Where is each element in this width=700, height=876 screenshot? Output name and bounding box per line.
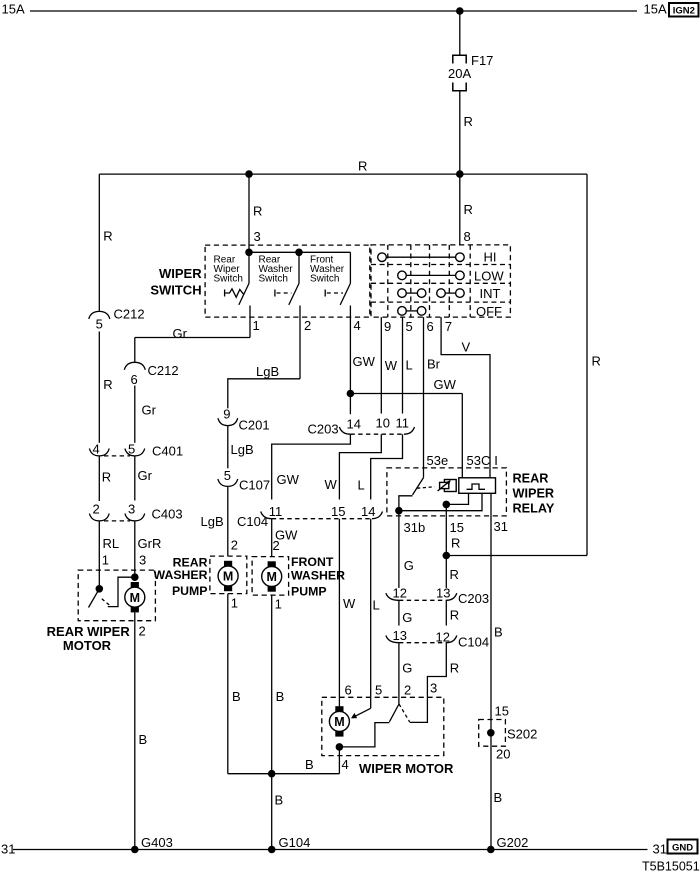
- svg-text:Gr: Gr: [138, 468, 153, 483]
- svg-text:2: 2: [231, 538, 238, 553]
- svg-text:31: 31: [494, 519, 508, 534]
- svg-text:31b: 31b: [404, 520, 426, 535]
- wire R distribution rail: [99, 173, 587, 175]
- connector C203 row1 left cap: [339, 427, 350, 434]
- wire Gr from C401-5 to C403-3: [134, 456, 136, 501]
- svg-text:G202: G202: [497, 835, 529, 850]
- wiper motor M4 housing: [322, 697, 444, 755]
- svg-text:15: 15: [495, 704, 509, 719]
- svg-text:WIPER: WIPER: [159, 266, 202, 281]
- connector C212 pin 6: [124, 362, 145, 370]
- wire INT bridge right: [445, 292, 455, 294]
- svg-text:2: 2: [93, 502, 100, 517]
- svg-text:LOW: LOW: [474, 268, 504, 283]
- svg-text:C203: C203: [308, 422, 339, 437]
- svg-text:4: 4: [342, 757, 349, 772]
- svg-text:GND: GND: [672, 842, 693, 853]
- contact LOW col-e: [456, 271, 465, 280]
- svg-text:B: B: [139, 732, 148, 747]
- svg-text:15: 15: [450, 520, 464, 535]
- park switch blade alternate throw: [399, 704, 410, 722]
- wire B front pump to G104: [271, 595, 273, 849]
- motor M rear wiper: [125, 582, 145, 612]
- contact OFF col-c: [417, 307, 426, 316]
- svg-text:11: 11: [269, 504, 283, 519]
- svg-text:B: B: [494, 790, 503, 805]
- svg-text:WASHER: WASHER: [154, 568, 208, 582]
- node switch feed B: [295, 249, 303, 257]
- wire B bus to G104: [228, 773, 340, 775]
- wire relay common to timer: [399, 493, 482, 510]
- svg-text:8: 8: [464, 229, 471, 244]
- svg-text:W: W: [325, 477, 338, 492]
- svg-text:C401: C401: [152, 444, 183, 459]
- svg-text:B: B: [305, 757, 314, 772]
- svg-text:15: 15: [331, 504, 345, 519]
- svg-text:15A: 15A: [644, 1, 667, 16]
- wire rear washer switch hinge: [298, 252, 300, 283]
- wire R C104-12 to wiper motor pin3: [427, 643, 446, 698]
- wire LOW bridge: [406, 274, 455, 276]
- svg-text:W: W: [343, 596, 356, 611]
- wire LgB from C107-5 to rear pump: [227, 486, 229, 556]
- momentary contact rear washer switch: [274, 290, 276, 297]
- matrix grid divider vertical 2: [410, 245, 412, 317]
- wire W from C203-10 to C104-15: [339, 434, 381, 499]
- svg-text:Br: Br: [427, 357, 441, 372]
- motor M rear washer pump: [218, 561, 238, 591]
- wire R to matrix pin 8: [459, 174, 461, 245]
- svg-text:4: 4: [354, 318, 361, 333]
- wire pin4 front washer output: [349, 306, 351, 415]
- wire Gr horizontal from pin1: [135, 337, 250, 339]
- wire relay 53C internal: [461, 468, 463, 478]
- svg-text:B: B: [276, 689, 285, 704]
- svg-text:V: V: [462, 340, 471, 355]
- wire L from C104-14 to wiper motor pin5: [370, 519, 372, 709]
- svg-text:5: 5: [96, 317, 103, 332]
- matrix grid divider vertical 1: [387, 245, 389, 317]
- svg-text:R: R: [450, 567, 459, 582]
- contact INT col-d: [437, 289, 446, 298]
- node relay pin15 junction: [443, 501, 451, 509]
- svg-text:C403: C403: [152, 507, 183, 522]
- connector C401 pin 5: [125, 449, 145, 456]
- connector C104 row1 right cap: [372, 512, 383, 519]
- svg-text:15A: 15A: [2, 1, 25, 16]
- connector C403 gang link: [104, 520, 130, 522]
- svg-text:PUMP: PUMP: [172, 584, 208, 598]
- svg-text:C212: C212: [148, 363, 179, 378]
- detent spring rear wiper switch: [224, 290, 226, 297]
- svg-text:7: 7: [445, 319, 452, 334]
- wire R to wiper switch pin 3: [248, 174, 250, 252]
- svg-text:20: 20: [496, 747, 510, 762]
- svg-text:1: 1: [102, 553, 109, 568]
- svg-text:9: 9: [223, 407, 230, 422]
- relay blade actuator link: [417, 487, 435, 488]
- switch blade rear wiper: [239, 283, 249, 305]
- svg-text:2: 2: [304, 318, 311, 333]
- connector C403 pin 3: [125, 514, 145, 521]
- node junction rail to wiper switch pin 3: [245, 170, 253, 178]
- park switch blade rear motor: [89, 589, 100, 608]
- svg-text:14: 14: [361, 504, 375, 519]
- svg-text:Gr: Gr: [173, 326, 188, 341]
- front washer pump M3 housing: [252, 557, 289, 596]
- node wiper motor bottom junction: [336, 743, 344, 751]
- svg-text:C212: C212: [114, 307, 145, 322]
- svg-text:RELAY: RELAY: [513, 501, 555, 515]
- wire top power rail 15A: [30, 10, 637, 12]
- matrix grid divider horizontal 3: [371, 301, 510, 303]
- rear wiper motor M1 housing: [78, 570, 155, 621]
- wire LgB from pin2: [228, 379, 300, 409]
- wiper switch speed contact matrix housing: [371, 245, 510, 317]
- svg-text:B: B: [232, 689, 241, 704]
- svg-text:5: 5: [406, 319, 413, 334]
- wire fuse feed: [459, 11, 461, 55]
- svg-text:6: 6: [131, 372, 138, 387]
- svg-text:2: 2: [404, 683, 411, 698]
- wire B wiper motor pin4: [338, 747, 340, 774]
- wire G C104-13 to wiper motor pin2: [398, 643, 400, 704]
- wire GW from C104-11 to front pump: [271, 519, 273, 557]
- svg-text:1: 1: [231, 596, 238, 611]
- svg-text:20A: 20A: [448, 66, 471, 81]
- svg-text:3: 3: [254, 229, 261, 244]
- connector C401 pin 4: [89, 449, 109, 456]
- svg-text:13: 13: [436, 585, 450, 600]
- svg-text:M: M: [266, 570, 276, 584]
- svg-text:GW: GW: [277, 472, 300, 487]
- svg-text:S202: S202: [507, 727, 537, 742]
- svg-text:R: R: [464, 202, 473, 217]
- fuse F17 20A top bracket: [453, 55, 466, 63]
- node relay common junction: [395, 507, 403, 515]
- wire R to right rail horizontal: [446, 555, 587, 557]
- svg-text:3: 3: [128, 502, 135, 517]
- connector C201 pin 9: [218, 418, 238, 425]
- wire feed drop front washer: [349, 252, 351, 283]
- matrix grid divider vertical 4: [448, 245, 450, 317]
- svg-text:11: 11: [396, 416, 410, 431]
- wire pin7 V output to relay: [441, 317, 490, 468]
- contact INT col-e: [456, 289, 465, 298]
- connector C401 gang link: [104, 455, 130, 457]
- svg-text:WIPER: WIPER: [513, 486, 555, 500]
- svg-text:3: 3: [139, 553, 146, 568]
- node splice S202: [487, 729, 495, 737]
- wire LgB from C201-9 to C107-5: [227, 426, 229, 469]
- svg-text:2: 2: [273, 538, 280, 553]
- node R branch to right rail: [443, 552, 451, 560]
- matrix grid divider vertical 3: [429, 245, 431, 317]
- svg-text:9: 9: [384, 319, 391, 334]
- node B bus junction: [268, 770, 276, 778]
- svg-text:G403: G403: [141, 835, 173, 850]
- svg-text:5: 5: [224, 468, 231, 483]
- svg-text:GrR: GrR: [138, 536, 162, 551]
- svg-text:LgB: LgB: [256, 364, 279, 379]
- svg-text:F17: F17: [471, 53, 493, 68]
- wire GrR to motor pin3: [134, 521, 136, 577]
- rear washer pump M2 housing: [210, 556, 247, 594]
- wire relay pin15 internal: [445, 504, 447, 516]
- connector C104 row1 gang link: [272, 518, 372, 520]
- splice S202 housing: [479, 720, 506, 747]
- svg-text:53C: 53C: [467, 453, 491, 468]
- contact INT col-b: [398, 289, 407, 298]
- wire HI bridge: [386, 256, 455, 258]
- svg-text:MOTOR: MOTOR: [63, 638, 112, 653]
- node GW branch junction: [347, 390, 355, 398]
- contact HI col-a: [378, 253, 387, 262]
- svg-text:G: G: [402, 610, 412, 625]
- svg-text:R: R: [464, 114, 473, 129]
- svg-text:C201: C201: [239, 417, 270, 432]
- wire switch feed bus: [249, 251, 350, 253]
- wire pin3 to park contact: [410, 697, 428, 722]
- svg-text:R: R: [450, 660, 459, 675]
- svg-text:C104: C104: [458, 634, 489, 649]
- wire R from C212-5 to C401-4: [98, 332, 100, 443]
- wire pin9 W output: [380, 317, 382, 413]
- svg-text:LgB: LgB: [231, 442, 254, 457]
- wire Gr down to C212-6: [134, 338, 136, 362]
- svg-text:10: 10: [376, 416, 390, 431]
- wire park contact to motor rear: [108, 577, 135, 606]
- wire pin6 Br output to relay 53e: [423, 317, 425, 468]
- connector C104 row2 right cap: [446, 636, 457, 643]
- wire rear wiper switch hinge: [248, 252, 250, 283]
- wire Gr from C212-6 to C401-5: [134, 386, 136, 443]
- matrix grid divider horizontal 2: [371, 282, 510, 284]
- relay timer unit U1: [459, 478, 496, 494]
- svg-text:WIPER MOTOR: WIPER MOTOR: [359, 761, 454, 776]
- svg-text:C203: C203: [458, 591, 489, 606]
- svg-text:M: M: [334, 715, 344, 729]
- wire bottom ground rail 31: [13, 849, 648, 851]
- connector C203 row1 gang link: [350, 433, 404, 435]
- matrix grid divider horizontal 1: [371, 264, 510, 266]
- svg-text:B: B: [494, 625, 503, 640]
- wire L from C203-11 to C104-14: [371, 434, 403, 499]
- wire relay blade common to 31b: [399, 496, 413, 516]
- svg-text:GW: GW: [353, 354, 376, 369]
- svg-text:53e: 53e: [427, 453, 449, 468]
- wiper motor speed tap arrow: [351, 708, 371, 718]
- svg-text:R: R: [253, 204, 262, 219]
- wire GW relay drop: [461, 394, 463, 468]
- svg-text:G: G: [402, 660, 412, 675]
- svg-text:Switch: Switch: [259, 274, 288, 285]
- svg-text:12: 12: [393, 585, 407, 600]
- park switch mech link rear motor: [102, 599, 110, 605]
- svg-text:G104: G104: [279, 835, 311, 850]
- svg-text:L: L: [358, 478, 365, 493]
- svg-text:L: L: [406, 358, 413, 373]
- svg-text:R: R: [451, 536, 460, 551]
- wire B rear pump down: [227, 594, 229, 774]
- wire R C203-13 to C104-12: [445, 600, 447, 625]
- rear wiper relay K1 housing: [387, 468, 507, 516]
- svg-text:WASHER: WASHER: [291, 569, 345, 583]
- motor M wiper: [329, 706, 349, 736]
- svg-text:Switch: Switch: [310, 274, 339, 285]
- relay contact blade: [413, 478, 424, 495]
- svg-text:T5B15051: T5B15051: [642, 860, 700, 874]
- svg-text:M: M: [130, 591, 140, 605]
- wire pin5 L output: [402, 317, 404, 413]
- motor M front washer pump: [262, 561, 282, 591]
- wire pin2 rear washer output: [299, 306, 301, 379]
- svg-text:R: R: [358, 159, 367, 174]
- connector C403 pin 2: [89, 514, 109, 521]
- switch blade front washer: [340, 283, 350, 305]
- momentary contact front washer switch: [324, 290, 326, 297]
- connector C203 row1 right cap: [404, 427, 415, 434]
- svg-text:REAR WIPER: REAR WIPER: [47, 624, 131, 639]
- matrix grid divider vertical 5: [469, 245, 471, 317]
- connector C203 row2 gang link: [399, 599, 446, 601]
- relay trigger arrow box: [438, 480, 457, 492]
- svg-text:13: 13: [393, 628, 407, 643]
- connector C104 row2 gang link: [399, 642, 446, 644]
- svg-text:INT: INT: [480, 286, 501, 301]
- svg-text:RL: RL: [103, 536, 120, 551]
- svg-text:G: G: [404, 558, 414, 573]
- contact INT col-c: [417, 289, 426, 298]
- svg-text:PUMP: PUMP: [291, 585, 327, 599]
- fuse F17 20A bottom bracket: [453, 83, 466, 91]
- node ground G202: [487, 846, 495, 854]
- node ground G403: [131, 846, 139, 854]
- svg-text:1: 1: [275, 597, 282, 612]
- wire B rear motor to ground: [134, 612, 136, 849]
- ground box GND: [668, 840, 698, 854]
- svg-text:I: I: [494, 453, 498, 468]
- wire GW to relay 53C horizontal: [350, 393, 462, 395]
- svg-text:R: R: [102, 470, 111, 485]
- wire R from fuse F17 down: [459, 91, 461, 174]
- wire relay I internal: [489, 468, 491, 478]
- wire park switch return: [339, 723, 389, 747]
- svg-text:31: 31: [653, 842, 667, 857]
- node motor pin3 junction: [131, 573, 139, 581]
- svg-text:R: R: [103, 229, 112, 244]
- svg-text:W: W: [385, 358, 398, 373]
- connector C104 row1 left cap: [261, 512, 272, 519]
- wire G from relay 31b down: [398, 516, 400, 588]
- connector C203 row2 right cap: [446, 593, 457, 600]
- contact OFF col-b: [398, 307, 407, 316]
- svg-text:R: R: [450, 608, 459, 623]
- connector C104 row2 left cap: [386, 636, 399, 643]
- switch blade rear washer: [289, 283, 299, 305]
- svg-text:C107: C107: [239, 477, 270, 492]
- svg-text:6: 6: [427, 319, 434, 334]
- node switch feed A: [245, 249, 253, 257]
- svg-text:6: 6: [345, 683, 352, 698]
- svg-text:3: 3: [430, 681, 437, 696]
- node ground G104: [268, 846, 276, 854]
- svg-text:REAR: REAR: [513, 471, 549, 485]
- node junction rail to wiper switch pin 8: [456, 170, 464, 178]
- wire timer output to pin 15: [446, 493, 468, 504]
- svg-text:SWITCH: SWITCH: [150, 283, 201, 298]
- svg-text:M: M: [223, 570, 233, 584]
- wire relay pin31 internal: [490, 493, 492, 516]
- wire relay 53e internal: [423, 468, 425, 478]
- contact LOW col-b: [398, 271, 407, 280]
- svg-text:FRONT: FRONT: [291, 555, 334, 569]
- wire W from C104-15 to wiper motor pin6: [338, 519, 340, 707]
- svg-text:IGN2: IGN2: [673, 5, 695, 16]
- svg-text:5: 5: [375, 683, 382, 698]
- wire pin1 stub: [249, 306, 251, 338]
- wire B relay 31 to ground G202: [490, 516, 492, 850]
- wire G C203-12 to C104-13: [398, 600, 400, 625]
- park switch blade wiper motor: [389, 704, 399, 722]
- wire INT bridge left: [406, 292, 417, 294]
- svg-text:1: 1: [253, 318, 260, 333]
- svg-text:OFF: OFF: [476, 304, 502, 319]
- svg-text:R: R: [103, 377, 112, 392]
- node junction top rail to fuse F17: [456, 7, 464, 15]
- connector box IGN2: [669, 3, 699, 17]
- wire GW from C203-14 to C104-11: [272, 434, 351, 499]
- connector C107 pin 5: [218, 479, 238, 486]
- wiper switch S1 housing: [205, 245, 370, 317]
- contact HI col-e: [456, 253, 465, 262]
- svg-text:GW: GW: [434, 377, 457, 392]
- svg-text:L: L: [373, 598, 380, 613]
- wire R right rail: [586, 174, 588, 555]
- wire R left branch down: [98, 174, 100, 311]
- svg-text:B: B: [275, 793, 284, 808]
- svg-text:2: 2: [139, 624, 146, 639]
- node park switch hinge rear motor: [96, 585, 104, 593]
- wire R from C401-4 to C403-2: [98, 456, 100, 501]
- svg-text:HI: HI: [484, 250, 497, 265]
- svg-text:Gr: Gr: [142, 403, 157, 418]
- connector C212 pin 5: [89, 311, 110, 319]
- wire R from relay 15 down: [445, 516, 447, 588]
- svg-text:LgB: LgB: [201, 514, 224, 529]
- wire OFF bridge: [406, 310, 417, 312]
- svg-text:Switch: Switch: [214, 274, 243, 285]
- svg-text:14: 14: [347, 416, 361, 431]
- wire RL to motor pin1: [98, 521, 100, 589]
- svg-text:R: R: [592, 354, 601, 369]
- connector C203 row2 left cap: [386, 593, 399, 600]
